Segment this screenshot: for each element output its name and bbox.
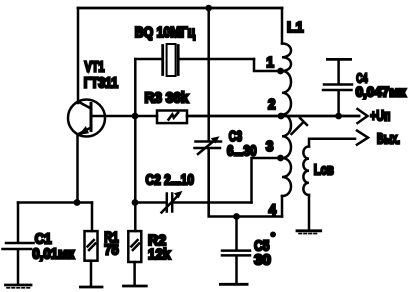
capacitor C2: [135, 191, 252, 213]
transistor VT1: [68, 100, 105, 137]
node emitter junction: [74, 199, 81, 206]
svg-text:VT1: VT1: [85, 58, 105, 75]
capacitor C5: [222, 217, 250, 284]
node base junction: [132, 113, 139, 120]
node C2 junction: [132, 199, 139, 206]
wire collector riser: [77, 8, 80, 103]
wire main horizontal to +U: [187, 115, 359, 118]
svg-text:2: 2: [268, 96, 276, 113]
resistor R1: [85, 203, 98, 286]
node tap2: [278, 113, 285, 120]
inductor L1: [282, 8, 291, 217]
ground Lsv: [297, 231, 321, 234]
wire center bus lower: [209, 149, 282, 217]
svg-text:6...30: 6...30: [227, 142, 257, 159]
node tap3: [277, 155, 284, 162]
crystal BQ: [135, 44, 254, 76]
svg-text:R3 36k: R3 36k: [145, 90, 189, 107]
wire top rail: [78, 7, 282, 10]
wire tap3 link: [252, 158, 282, 203]
arrow +Up: [358, 109, 368, 123]
ground C1: [6, 285, 32, 288]
svg-text:12k: 12k: [148, 247, 171, 264]
svg-text:L1: L1: [287, 20, 303, 36]
node C4 junction: [335, 113, 342, 120]
arrow Vyh: [357, 131, 368, 145]
label asterisk: [270, 232, 276, 238]
node C5 junction: [233, 213, 240, 220]
node tap1: [277, 68, 284, 75]
svg-text:4: 4: [269, 202, 277, 219]
wire emitter lead: [76, 134, 79, 203]
svg-text:Lсв: Lсв: [314, 161, 334, 178]
ground R1: [80, 286, 102, 289]
svg-text:1: 1: [266, 54, 274, 71]
capacitor C1: [3, 203, 34, 284]
resistor R2: [128, 231, 141, 285]
wire base lead: [91, 115, 157, 118]
svg-text:ГТ311: ГТ311: [84, 74, 119, 90]
svg-text:3: 3: [266, 139, 274, 156]
capacitor C3: [195, 136, 222, 154]
wire center bus upper: [207, 8, 210, 140]
svg-text:75: 75: [104, 241, 119, 258]
svg-text:30: 30: [254, 252, 271, 269]
wire emitter horizontal: [18, 201, 92, 204]
svg-text:C2 2...10: C2 2...10: [146, 171, 194, 188]
inductor Lsv: [303, 147, 309, 230]
svg-text:0,047мк: 0,047мк: [356, 84, 406, 99]
resistor R3: [157, 111, 187, 124]
svg-text:+Uп: +Uп: [370, 107, 390, 124]
trimmer arrow for L1: [292, 118, 308, 134]
wire base bus vertical: [134, 59, 137, 231]
ground C5: [220, 283, 247, 286]
node top-rail junction: [205, 5, 212, 12]
wire crystal to tap1: [254, 59, 281, 71]
wire output: [309, 139, 355, 147]
svg-text:0,01мк: 0,01мк: [32, 245, 75, 262]
svg-text:Вых.: Вых.: [377, 130, 400, 147]
capacitor C4: [323, 59, 352, 116]
ground R2: [124, 285, 147, 288]
svg-text:BQ 10МГц: BQ 10МГц: [135, 24, 196, 40]
